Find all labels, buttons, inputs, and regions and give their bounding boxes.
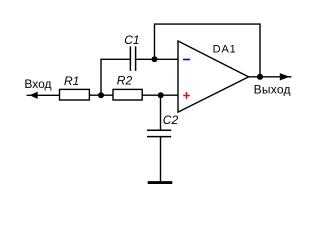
input arrow: [30, 92, 38, 99]
output arrow: [280, 73, 290, 80]
svg-text:Выход: Выход: [254, 82, 291, 96]
svg-text:DA1: DA1: [213, 43, 237, 55]
op-amp DA1: [178, 41, 249, 112]
output wire: [249, 76, 292, 78]
wire node B down to C2: [160, 95, 162, 130]
node A junction dot: [98, 92, 104, 98]
svg-text:R2: R2: [117, 74, 133, 88]
wire R2 to op-amp non-inverting input: [142, 94, 178, 96]
wire node A up to C1: [101, 59, 130, 95]
op-amp minus sign: [183, 59, 190, 61]
capacitor C2: [147, 130, 171, 136]
wire C1 to op-amp inverting input: [136, 58, 178, 60]
wire input stub: [27, 94, 60, 96]
wire R1 to R2: [89, 94, 113, 96]
svg-text:C2: C2: [163, 113, 179, 127]
svg-text:R1: R1: [64, 74, 79, 88]
svg-text:C1: C1: [124, 33, 139, 47]
node B junction dot: [158, 92, 164, 98]
svg-text:Вход: Вход: [24, 77, 51, 91]
node D junction dot: [257, 74, 263, 80]
resistor R1: [60, 89, 90, 100]
op-amp plus sign: [183, 92, 190, 99]
wire C2 to ground: [160, 137, 162, 182]
capacitor C1: [130, 46, 135, 71]
resistor R2: [113, 89, 142, 100]
node C junction dot: [152, 56, 158, 62]
ground: [148, 181, 173, 184]
feedback wire: [155, 24, 261, 77]
